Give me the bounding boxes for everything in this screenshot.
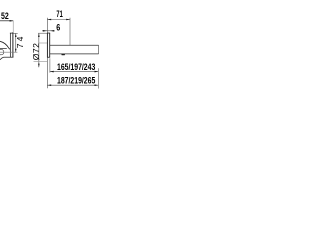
- svg-text:165/197/243: 165/197/243: [57, 62, 96, 72]
- svg-text:74: 74: [15, 35, 25, 49]
- svg-text:52: 52: [1, 11, 9, 21]
- svg-text:71: 71: [56, 9, 63, 20]
- svg-text:Ø72: Ø72: [31, 43, 41, 60]
- svg-text:187/219/265: 187/219/265: [57, 76, 96, 86]
- svg-text:6: 6: [56, 23, 60, 33]
